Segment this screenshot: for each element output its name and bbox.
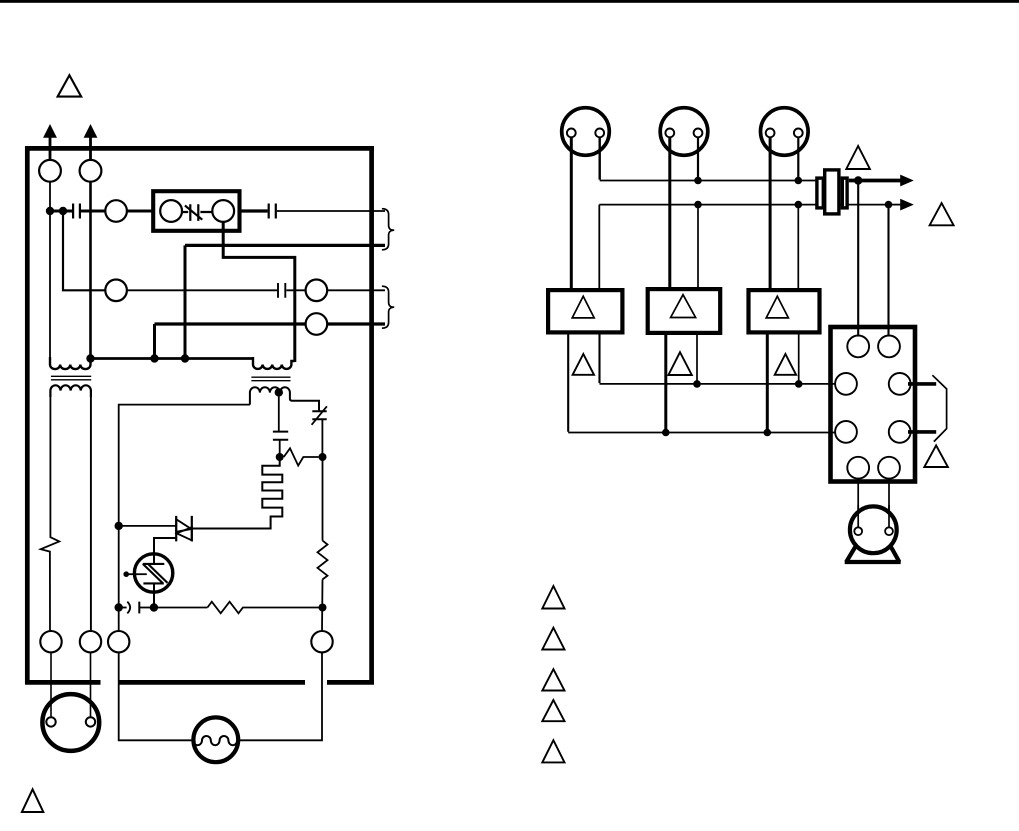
terminal circle bottom 2 [80,631,101,652]
wire low-voltage bus [91,357,254,360]
note callout triangle at filter [846,146,870,169]
arrow line B [900,199,914,211]
flame cell bottom lead [153,583,155,607]
wire plug2 left pin lead to box2 [668,137,671,287]
motor pin right [885,527,893,535]
burner box 3 triangle [766,296,788,318]
wire to resistor R2 [154,607,208,609]
igniter circle [193,717,238,762]
coil circle row2 right [306,280,328,302]
burner box 3 [749,290,820,332]
flame cell photoresistor element [143,564,168,584]
wire row3 out to brace [327,322,385,325]
wire diac to flame cell [154,538,176,554]
wire line A output thick [849,179,901,183]
relay K1 box [153,191,239,231]
wire line C [600,383,836,385]
wire T2 secondary left branch [119,405,250,631]
diac bars [176,516,192,542]
node dot C box3 [795,380,803,388]
flame cell top lead inside [153,554,155,564]
node dot A output [854,176,862,184]
node dot C box2 [693,380,701,388]
node dot bus x185 [181,354,189,362]
wire line D [568,432,835,434]
plug pin 1 [46,717,55,726]
interference filter center body [825,170,839,214]
arrow line A [900,175,914,187]
spark gap slash [312,406,327,425]
wire line A [600,180,816,182]
flame cell dot stub [126,573,136,575]
wire motor lead inside left [857,505,859,527]
transformer T1 core [51,376,91,380]
coil circle row3 [306,313,328,335]
relay NC contact slash [185,206,202,220]
node dot right rail y607 [319,604,327,612]
node dot row1 second tap [59,207,67,215]
wire row1 relay to capacitor [240,209,268,212]
control case outer box (bottom edge has pass-through gaps) [25,146,374,684]
plug2 pin left [665,129,674,138]
node dot B box2 [694,201,702,209]
wire tap down to row2 [63,211,105,290]
wire thick feed line y245 [185,244,385,247]
plug3 pin left [766,129,775,138]
wire line B corner down to box1 [598,205,600,288]
node dot A plug3 [795,177,803,185]
capacitor C2 bottom lead [279,440,281,457]
relay NC contact bars [182,204,212,221]
arrow supply L1 [43,124,57,138]
wire row3 thick line [155,322,306,325]
node dot diac tap [115,522,123,530]
terminal block pin B [878,336,900,358]
capacitor C3 curved plate [127,602,130,614]
wire T1 rail down to transformer primary [49,182,51,366]
burner box 2 [648,289,721,333]
wire box1 right lead corner to line C [598,335,600,384]
resistor R3 vertical zigzag [318,541,328,580]
wire B drop to box3 [797,205,799,288]
plug2 pin right [694,129,703,138]
plug1 pin right [595,129,604,138]
wire row1 left segment [50,210,72,213]
transformer T2 core [251,377,290,381]
wire plug3 left pin lead to box3 [769,137,772,288]
brace row1 pair [382,209,394,250]
node dot A plug2 [694,177,702,185]
wire stub block right upper [908,382,936,386]
note callout triangle list 3 [542,669,564,690]
note callout triangle list 2 [542,628,564,650]
node dot B output [885,201,893,209]
terminal block pin D-right [889,421,911,443]
capacitor contact row1 right [269,204,276,219]
resistor R1 horizontal [284,448,319,465]
wire feed drop x185 [184,245,187,358]
wire plug3 right pin lead to line A [797,137,799,180]
wire relay output down-right-down to T2 primary [223,222,295,362]
relay contact circle right [212,200,234,222]
terminal circle T2 [80,160,102,182]
wire T1 secondary right lead [90,396,92,631]
wire T1 secondary left lead with break jog [41,396,60,631]
plug circle 2 [660,108,708,156]
note callout triangle list 5 [542,740,564,762]
wire motor drop right [888,479,890,528]
wire box2 left lead to line D [664,335,667,433]
node dot bus at T2 rail [86,354,94,362]
terminal circle bottom 1 [40,631,61,652]
diac triangle upper [176,519,191,532]
interference filter right bracket [842,178,847,208]
note callout triangle list 4 [542,700,564,721]
motor base [845,539,901,562]
terminal block pin F [878,457,900,479]
capacitor C3 lead left [119,607,127,609]
resistor R2 zigzag [207,602,322,614]
note callout triangle below box1 [573,354,594,375]
wire box2 right lead to line C [696,335,698,384]
flame detector cell circle [134,554,172,592]
transformer T1 secondary winding [50,385,91,397]
capacitor C2 top lead [278,392,280,431]
ignition plug circle [42,694,99,751]
flame cell external dot [123,571,129,577]
node dot D box2 [662,429,670,437]
note callout triangle right of arrows [930,203,954,225]
node dot row1 at T1 rail [46,207,54,215]
wire left rail row y607 dots [115,603,123,611]
burner box 2 triangle [671,295,696,318]
wire row1 into relay box [127,210,153,213]
plug1 pin left [567,129,576,138]
diac triangle lower [177,527,192,540]
wire row1 thin out to brace [277,210,385,212]
angular brace right of block [932,375,946,441]
wire T2 rail down to transformer primary [89,182,92,359]
wire row2 cap to circle [286,289,305,291]
note callout triangle below box3 [775,354,796,375]
motor pin left [854,527,862,535]
wire row2 line [127,289,277,291]
terminal block pin A [847,336,869,358]
capacitor contact row1 left [73,204,80,219]
note callout triangle bottom left [22,789,43,812]
transformer T1 primary winding [50,357,91,369]
terminal circle bottom 4 [311,631,332,652]
wire right rail lower [321,579,324,631]
terminal block [831,327,916,482]
terminal block pin C-left [835,373,857,395]
node dot flame cell bottom [150,603,158,611]
wire spark gap lower lead [321,419,323,457]
terminal circle T1 [39,160,61,182]
motor circle [850,506,897,553]
wire plug lead 2 [90,652,92,717]
wire box3 right lead to line C [798,335,800,384]
flame cell mid lead [135,573,147,575]
wire row3 drop x154.5 [153,324,156,359]
node dot cap bottom [276,453,284,461]
terminal circle bottom 3 [108,631,129,652]
terminal block pin C-right [889,373,911,395]
wire motor lead inside right [888,505,890,527]
note callout triangle list 1 [542,586,564,609]
plug3 pin right [794,129,803,138]
terminal block pin D-left [835,421,857,443]
wire motor drop left [857,479,859,528]
wire stub block right lower [908,430,936,434]
wire plug2 right pin lead to line A [697,137,699,180]
capacitor C3 straight plate [138,602,140,614]
wire plug lead 1 [50,652,52,717]
wire plug1 right pin lead to line A [599,137,601,179]
wire B drop to box2 [697,205,699,287]
node dot on T2 secondary [275,388,283,396]
plug circle 3 [761,108,809,156]
wire line B output [889,204,902,206]
wire box1 left lead corner to line D [567,335,569,432]
brace row2 pair [382,286,394,328]
capacitor C2 plates [273,432,288,440]
wire row2 out to brace [327,289,385,291]
burner box 1 triangle [572,296,594,318]
node dot right rail top [319,453,327,461]
transformer T2 primary winding [253,357,295,369]
igniter heating element squiggle [193,736,237,745]
plug pin 2 [86,717,95,726]
note callout triangle below box2 [668,352,691,375]
wire L1 supply stem [49,138,52,161]
wire right rail upper [322,457,324,541]
coil circle row1 [105,200,127,222]
capacitor contact row2 [278,283,285,298]
note callout triangle below brace [924,445,948,467]
wire drop A to terminal block pin [857,181,859,337]
wire drop B to terminal block pin [887,205,889,336]
wire box3 left lead to line D [766,335,769,433]
node dot B box3 [795,201,803,209]
terminal block pin E [847,457,869,479]
wire diac left lead [119,525,177,527]
transformer T2 secondary winding [250,387,319,411]
wire line B [599,204,888,206]
interference filter left bracket [817,178,823,208]
heater element meander [192,457,282,529]
spark gap bars [312,411,326,419]
burner box 1 [548,290,622,332]
note callout triangle 1 (top left) [58,75,82,96]
right diagram: plug circle 1 [562,108,610,156]
wire L2 supply stem [89,138,92,161]
wire igniter loop [119,652,322,740]
coil circle row2 left [105,280,127,302]
node dot bus x154.5 [150,354,158,362]
node dot D box3 [764,429,772,437]
capacitor C3 lead right [139,607,150,609]
relay contact circle left [160,200,182,222]
wire plug1 left pin lead to box1 [570,137,573,288]
arrow supply L2 [84,124,98,138]
page rule top [0,0,1019,3]
wire row1 to coil circle [81,210,105,213]
